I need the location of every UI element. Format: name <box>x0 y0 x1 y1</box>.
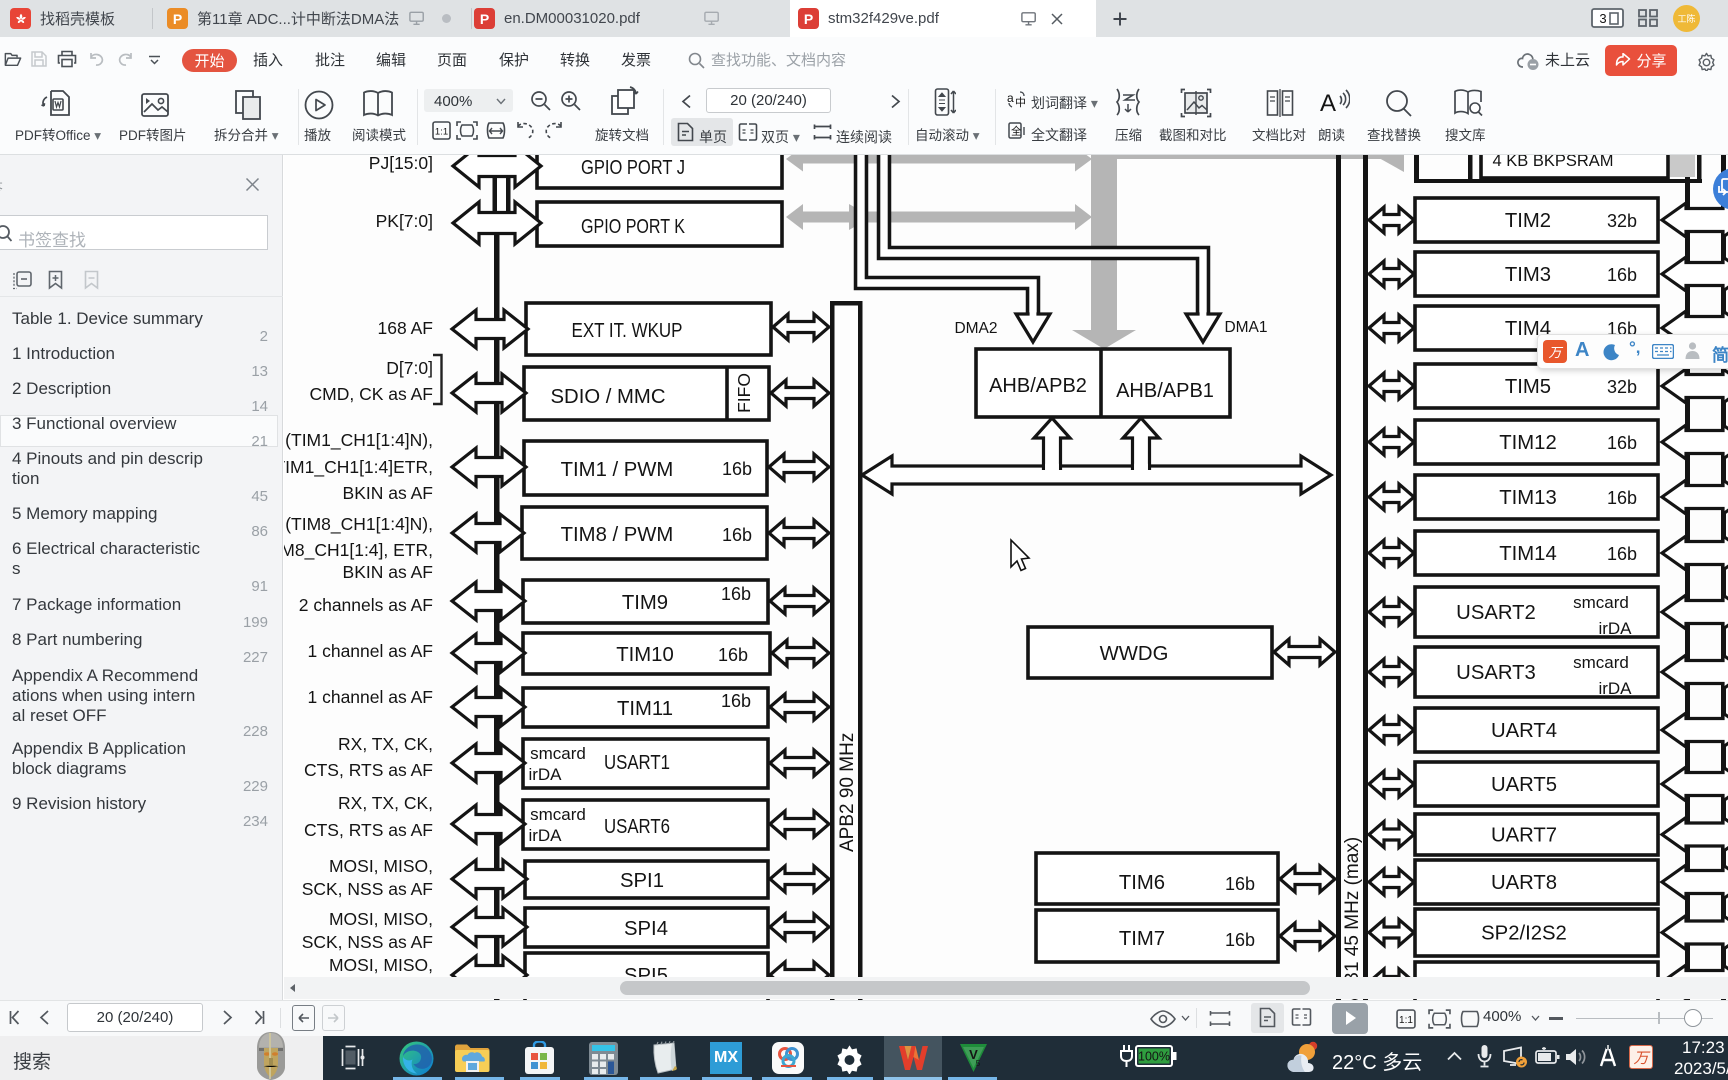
grey thin AHB line to right <box>1092 154 1404 160</box>
arrow TIM5 to right bus <box>1662 369 1728 403</box>
arrow UART5 to right bus <box>1662 767 1728 801</box>
play icon <box>303 89 335 121</box>
arrow SP2/I2S2 to right bus <box>1662 916 1728 950</box>
mic <box>1477 1044 1492 1070</box>
grey vertical AHB arrow into AHB/APB bridge <box>1091 153 1117 331</box>
svg-text:SDIO / MMC: SDIO / MMC <box>551 385 666 408</box>
block USART3 <box>1415 647 1658 697</box>
block TIM1 / PWM <box>524 441 767 495</box>
compress <box>1113 87 1143 117</box>
arrow SPI3 to right bus <box>1662 965 1728 999</box>
arrow TIM10 AF <box>452 634 525 672</box>
svg-text:16b: 16b <box>1225 874 1255 894</box>
svg-text:APB2 90 MHz: APB2 90 MHz <box>837 733 858 852</box>
arrow SP2/I2S2 to APB1 bus <box>1369 920 1414 946</box>
right peripheral bus channel walls <box>1685 155 1690 1000</box>
svg-text:TIM10: TIM10 <box>616 644 673 666</box>
FIFO sub-box <box>725 367 729 420</box>
block TIM4 <box>1415 306 1658 350</box>
block TIM10 <box>523 633 770 674</box>
svg-text:AHB/APB1: AHB/APB1 <box>1116 380 1214 402</box>
svg-text:APB1 45 MHz (max): APB1 45 MHz (max) <box>1342 837 1363 1000</box>
svg-text:1:1: 1:1 <box>435 127 448 138</box>
block UART7 <box>1415 814 1658 855</box>
avatar <box>1673 5 1700 32</box>
read aloud <box>1320 88 1350 118</box>
arrow TIM4 to APB1 bus <box>1369 315 1414 341</box>
svg-text:irDA: irDA <box>528 765 562 784</box>
arrow UART8 to APB1 bus <box>1369 869 1414 895</box>
arrow TIM5 to APB1 bus <box>1369 373 1414 399</box>
svg-text:16b: 16b <box>718 645 748 665</box>
svg-text:TIM6: TIM6 <box>1119 872 1165 894</box>
svg-text:SPI4: SPI4 <box>624 918 668 940</box>
doc compare <box>1266 88 1294 118</box>
rotate doc <box>608 86 640 118</box>
svg-text:16b: 16b <box>1225 930 1255 950</box>
new tab button <box>1113 12 1127 26</box>
arrow TIM11 AF <box>452 688 525 726</box>
wire DMA2 request <box>861 147 1033 316</box>
second row: 1:1, fit, rotate <box>432 121 451 140</box>
WPS active <box>884 1036 942 1080</box>
block TIM9 <box>523 580 768 623</box>
svg-text:TIM3: TIM3 <box>1505 264 1551 286</box>
svg-text:TIM8 / PWM: TIM8 / PWM <box>561 524 674 546</box>
tray caret <box>1447 1051 1462 1061</box>
svg-text:UART4: UART4 <box>1491 720 1557 742</box>
svg-text:GPIO PORT K: GPIO PORT K <box>581 216 685 238</box>
svg-text:CMD, CK as AF: CMD, CK as AF <box>310 384 434 404</box>
arrow UART7 to right bus <box>1662 818 1728 852</box>
block UART8 <box>1415 860 1658 904</box>
svg-text:16b: 16b <box>721 691 751 711</box>
svg-text:smcard: smcard <box>1573 593 1629 612</box>
svg-text:SCK, NSS as AF: SCK, NSS as AF <box>302 879 433 899</box>
arrow TIM8 AF <box>452 514 524 552</box>
svg-text:GPIO PORT J: GPIO PORT J <box>581 157 685 179</box>
block WWDG <box>1028 627 1272 678</box>
arrow to APB2 bus <box>770 962 829 988</box>
cast icon <box>1502 1046 1528 1069</box>
svg-text:TIM14: TIM14 <box>1499 543 1556 565</box>
svg-text:16b: 16b <box>722 525 752 545</box>
arrow to APB2 bus <box>769 520 829 546</box>
translate rows <box>1007 90 1027 109</box>
svg-text:(TIM1_CH1[1:4]ETR,: (TIM1_CH1[1:4]ETR, <box>284 457 433 478</box>
block USART1 <box>523 739 768 788</box>
arrow to APB2 bus <box>772 640 829 666</box>
arrow TIM3 to APB1 bus <box>1369 261 1414 287</box>
block 4KB BKPSRAM <box>1481 139 1668 178</box>
svg-text:SPI1: SPI1 <box>620 870 664 892</box>
svg-text:TIM9: TIM9 <box>622 592 668 614</box>
arrow SDIO AF <box>452 374 526 412</box>
svg-text:32b: 32b <box>1607 377 1637 397</box>
svg-text:3: 3 <box>1599 11 1606 26</box>
svg-text:USART3: USART3 <box>1456 662 1536 684</box>
arrow TIM14 to right bus <box>1662 536 1728 570</box>
arrow UART8 to right bus <box>1662 865 1728 899</box>
arrow SPI1 AF <box>452 860 527 898</box>
arrowhead DMA2 <box>1016 314 1050 342</box>
svg-text:. (TIM1_CH1[1:4]N),: . (TIM1_CH1[1:4]N), <box>284 430 433 451</box>
svg-text:1 channel as AF: 1 channel as AF <box>308 687 434 707</box>
block SPI1 <box>525 861 768 898</box>
svg-text:16b: 16b <box>722 459 752 479</box>
svg-text:100%: 100% <box>1138 1050 1170 1064</box>
svg-text:DMA2: DMA2 <box>954 320 997 337</box>
search <box>688 52 705 69</box>
mouse cursor <box>1011 540 1029 571</box>
search highlight helmet <box>252 1031 290 1080</box>
block TIM2 <box>1415 198 1658 242</box>
window mode icon <box>1591 8 1624 28</box>
svg-text:a: a <box>1007 91 1014 105</box>
block GPIO PORT K <box>537 202 782 246</box>
arrow UART4 to APB1 bus <box>1369 717 1414 743</box>
arrow USART3 to APB1 bus <box>1369 659 1414 685</box>
arrow USART1 AF <box>452 744 525 782</box>
block USART2 <box>1415 587 1658 637</box>
main AF bus vertical line <box>494 222 500 1000</box>
svg-text:1 channel as AF: 1 channel as AF <box>308 641 434 661</box>
arrow up into AHB/APB1 <box>1123 418 1159 472</box>
svg-text:16b: 16b <box>1607 265 1637 285</box>
arrow to APB2 bus <box>770 866 829 892</box>
block TIM11 <box>523 688 768 727</box>
tab docer <box>10 0 144 37</box>
svg-text:RX, TX, CK,: RX, TX, CK, <box>338 734 433 754</box>
grey left arrowhead near right bus <box>1379 144 1404 172</box>
svg-text:MOSI, MISO,: MOSI, MISO, <box>329 955 433 975</box>
tab pdf1 <box>474 0 784 37</box>
svg-text:中: 中 <box>1015 96 1026 109</box>
svg-text:CTS, RTS as AF: CTS, RTS as AF <box>304 820 433 840</box>
grey AHB bus arrow row2 (GPIO K to bus matrix) <box>786 204 1092 230</box>
svg-text:16b: 16b <box>1607 488 1637 508</box>
IME toolbar <box>1537 334 1728 369</box>
pdf horizontal scrollbar <box>284 977 1728 999</box>
block TIM8 / PWM <box>522 507 767 559</box>
arrow TIM4 to right bus <box>1662 311 1728 345</box>
arrow USART6 AF <box>452 805 525 843</box>
arrow TIM2 to right bus <box>1662 203 1728 237</box>
svg-text:smcard: smcard <box>1573 653 1629 672</box>
folder <box>454 1043 491 1074</box>
arrow to APB2 bus <box>771 380 829 406</box>
svg-text:4 KB BKPSRAM: 4 KB BKPSRAM <box>1492 155 1613 170</box>
svg-text:TIM5: TIM5 <box>1505 376 1551 398</box>
arrow up into AHB/APB2 <box>1034 418 1070 472</box>
arrow TIM13 to right bus <box>1662 480 1728 514</box>
svg-text:A: A <box>1320 90 1336 117</box>
block UART4 <box>1415 708 1658 752</box>
svg-text:USART1: USART1 <box>604 752 670 774</box>
arrow TIM13 to APB1 bus <box>1369 484 1414 510</box>
file icons <box>4 51 22 67</box>
svg-text:EXT IT. WKUP: EXT IT. WKUP <box>572 320 683 342</box>
block TIM12 <box>1415 420 1658 464</box>
search box <box>0 1036 323 1080</box>
grid icon <box>1638 9 1658 27</box>
svg-text:16b: 16b <box>721 584 751 604</box>
svg-text:5: 5 <box>976 1059 981 1068</box>
wannneng tray <box>1629 1045 1653 1069</box>
partial tab char <box>0 178 6 194</box>
svg-text:irDA: irDA <box>1598 619 1632 638</box>
arrow to APB2 bus <box>773 314 829 340</box>
block TIM5 <box>1415 364 1658 408</box>
zoom combo <box>424 89 513 112</box>
input A <box>1598 1045 1618 1069</box>
clock <box>1682 1038 1725 1058</box>
block TIM7 <box>1036 910 1278 962</box>
MX <box>710 1042 742 1074</box>
HBuilder V5 <box>958 1042 989 1074</box>
APB1 bus channel <box>1336 155 1341 1000</box>
arrow GPIO PJ to bus <box>453 145 541 187</box>
arrow USART3 to right bus <box>1662 655 1728 689</box>
svg-text:TIM13: TIM13 <box>1499 487 1556 509</box>
svg-text:SP2/I2S2: SP2/I2S2 <box>1481 923 1567 945</box>
cloud not uploaded <box>1516 51 1542 71</box>
arrow to APB2 bus <box>770 588 829 614</box>
block SPI5 <box>525 953 768 1002</box>
bookmark toolbar icons <box>12 271 32 290</box>
read mode icon <box>361 89 395 119</box>
arrow to APB2 bus <box>770 811 829 837</box>
svg-text:n.(TIM8_CH1[1:4]N),: n.(TIM8_CH1[1:4]N), <box>284 514 433 535</box>
block TIM14 <box>1415 531 1658 575</box>
floating blue circle button <box>1713 168 1728 210</box>
svg-text:D[7:0]: D[7:0] <box>386 358 433 378</box>
arrow TIM6 to APB1 <box>1280 866 1335 892</box>
svg-text:RX, TX, CK,: RX, TX, CK, <box>338 793 433 813</box>
svg-text:smcard: smcard <box>530 805 586 824</box>
page nav <box>681 94 692 109</box>
AHB bus hollow segment top-left <box>493 147 498 225</box>
arrow TIM3 to right bus <box>1662 257 1728 291</box>
arrow TIM2 to APB1 bus <box>1369 207 1414 233</box>
close x <box>245 177 260 192</box>
weather <box>1286 1039 1326 1076</box>
block TIM13 <box>1415 475 1658 519</box>
svg-text:全: 全 <box>1011 125 1022 138</box>
tab ppt <box>167 0 467 37</box>
share button <box>1605 45 1677 76</box>
svg-text:DMA1: DMA1 <box>1224 319 1267 336</box>
arrow TIM1 AF <box>452 448 526 486</box>
svg-text:TIM12: TIM12 <box>1499 432 1556 454</box>
svg-text:TIM11: TIM11 <box>617 698 673 720</box>
svg-text:WWDG: WWDG <box>1100 643 1169 665</box>
store <box>523 1041 556 1076</box>
arrow TIM12 to right bus <box>1662 425 1728 459</box>
svg-text:smcard: smcard <box>530 744 586 763</box>
svg-text:AHB/APB2: AHB/APB2 <box>989 375 1087 397</box>
tab active pdf <box>790 0 1096 37</box>
wire DMA1 request <box>884 147 1203 316</box>
battery plug <box>1119 1043 1177 1071</box>
arrow USART2 to APB1 bus <box>1369 599 1414 625</box>
block SP2/I2S2 <box>1415 909 1658 956</box>
block EXT IT. WKUP <box>526 303 771 355</box>
bracket D[7:0] <box>433 355 442 404</box>
PDF to Office icon <box>39 87 73 123</box>
find replace <box>1384 88 1412 118</box>
arrow GPIO PK to bus <box>453 202 541 244</box>
svg-text:SCK, NSS as AF: SCK, NSS as AF <box>302 932 433 952</box>
svg-text:USART6: USART6 <box>604 816 670 838</box>
svg-text:MOSI, MISO,: MOSI, MISO, <box>329 856 433 876</box>
grey mid arrowhead row2 <box>849 204 872 230</box>
svg-text:TIM2: TIM2 <box>1505 210 1551 232</box>
svg-text:UART8: UART8 <box>1491 872 1557 894</box>
arrow UART5 to APB1 bus <box>1369 771 1414 797</box>
svg-text:MOSI, MISO,: MOSI, MISO, <box>329 909 433 929</box>
svg-text:PK[7:0]: PK[7:0] <box>376 211 433 231</box>
arrow to APB2 bus <box>770 694 829 720</box>
notepad <box>648 1041 680 1075</box>
svg-text:PJ[15:0]: PJ[15:0] <box>369 155 433 173</box>
block AHB/APB bridges <box>976 349 1230 417</box>
backup domain boundary lines <box>1414 139 1419 183</box>
svg-text:TIM1 / PWM: TIM1 / PWM <box>561 459 674 481</box>
svg-text:BKIN as AF: BKIN as AF <box>343 483 433 503</box>
svg-text:UART5: UART5 <box>1491 774 1557 796</box>
arrow USART2 to right bus <box>1662 595 1728 629</box>
block USART6 <box>523 800 768 849</box>
svg-text:BKIN as AF: BKIN as AF <box>343 562 433 582</box>
arrow SPI4 AF <box>452 908 527 946</box>
svg-text:USART2: USART2 <box>1456 602 1536 624</box>
svg-text:irDA: irDA <box>528 826 562 845</box>
svg-text:FIFO: FIFO <box>734 373 754 413</box>
arrow to APB2 bus <box>770 914 829 940</box>
APB2 bus channel <box>830 301 863 306</box>
play button <box>1332 1003 1368 1034</box>
svg-text:16b: 16b <box>1607 544 1637 564</box>
zoom out / in <box>530 90 551 111</box>
arrow 168 AF <box>452 310 528 348</box>
svg-text:TIM7: TIM7 <box>1119 928 1165 950</box>
bookmark search box <box>0 215 268 250</box>
bookmark list <box>0 415 278 447</box>
settings gear <box>834 1043 865 1074</box>
page nav bottom <box>8 1009 25 1026</box>
calculator <box>588 1041 619 1076</box>
right status controls <box>1149 1009 1177 1029</box>
auto scroll <box>934 87 956 117</box>
arrow TIM7 to APB1 <box>1280 923 1335 949</box>
arrow SPI3 to APB1 bus <box>1369 969 1414 995</box>
svg-text:1:1: 1:1 <box>1399 1015 1413 1026</box>
svg-text:32b: 32b <box>1607 211 1637 231</box>
svg-text:16b: 16b <box>1607 433 1637 453</box>
task view <box>341 1045 365 1070</box>
svg-text:TIM8_CH1[1:4], ETR,: TIM8_CH1[1:4], ETR, <box>284 540 433 561</box>
block SDIO / MMC <box>524 367 769 420</box>
PDF to image icon <box>139 89 171 121</box>
speaker <box>1564 1045 1588 1069</box>
screenshot compare <box>1180 88 1212 118</box>
svg-text:2 channels as AF: 2 channels as AF <box>299 595 433 615</box>
arrowhead DMA1 <box>1186 314 1220 342</box>
split merge icon <box>231 88 267 122</box>
block GPIO PORT J <box>537 144 782 188</box>
block TIM3 <box>1415 252 1658 296</box>
colorful app <box>772 1042 804 1074</box>
svg-text:168 AF: 168 AF <box>378 318 433 338</box>
arrow UART7 to APB1 bus <box>1369 822 1414 848</box>
arrow to APB2 bus <box>770 750 829 776</box>
arrow TIM14 to APB1 bus <box>1369 540 1414 566</box>
grey AHB bus arrow row1 (GPIO J to bus matrix) <box>786 147 1092 172</box>
library <box>1453 88 1483 118</box>
block SPI3 <box>1415 962 1658 1002</box>
开始 pill <box>182 49 237 72</box>
block TIM6 <box>1036 853 1278 904</box>
svg-text:UART7: UART7 <box>1491 825 1557 847</box>
svg-text:CTS, RTS as AF: CTS, RTS as AF <box>304 760 433 780</box>
battery tray <box>1535 1047 1560 1067</box>
arrow TIM12 to APB1 bus <box>1369 429 1414 455</box>
svg-text:irDA: irDA <box>1598 679 1632 698</box>
arrow WWDG to APB1 <box>1274 639 1335 665</box>
gear <box>1697 52 1716 71</box>
edge <box>398 1040 435 1077</box>
arrow UART4 to right bus <box>1662 713 1728 747</box>
arrow SPI5 AF <box>452 956 527 994</box>
block SPI4 <box>525 908 768 947</box>
arrow to APB2 bus <box>769 454 829 480</box>
arrow TIM9 AF <box>452 582 525 620</box>
view mode buttons <box>671 118 733 146</box>
arrow APB2-APB1 horizontal bus <box>862 456 1331 494</box>
block UART5 <box>1415 762 1658 806</box>
